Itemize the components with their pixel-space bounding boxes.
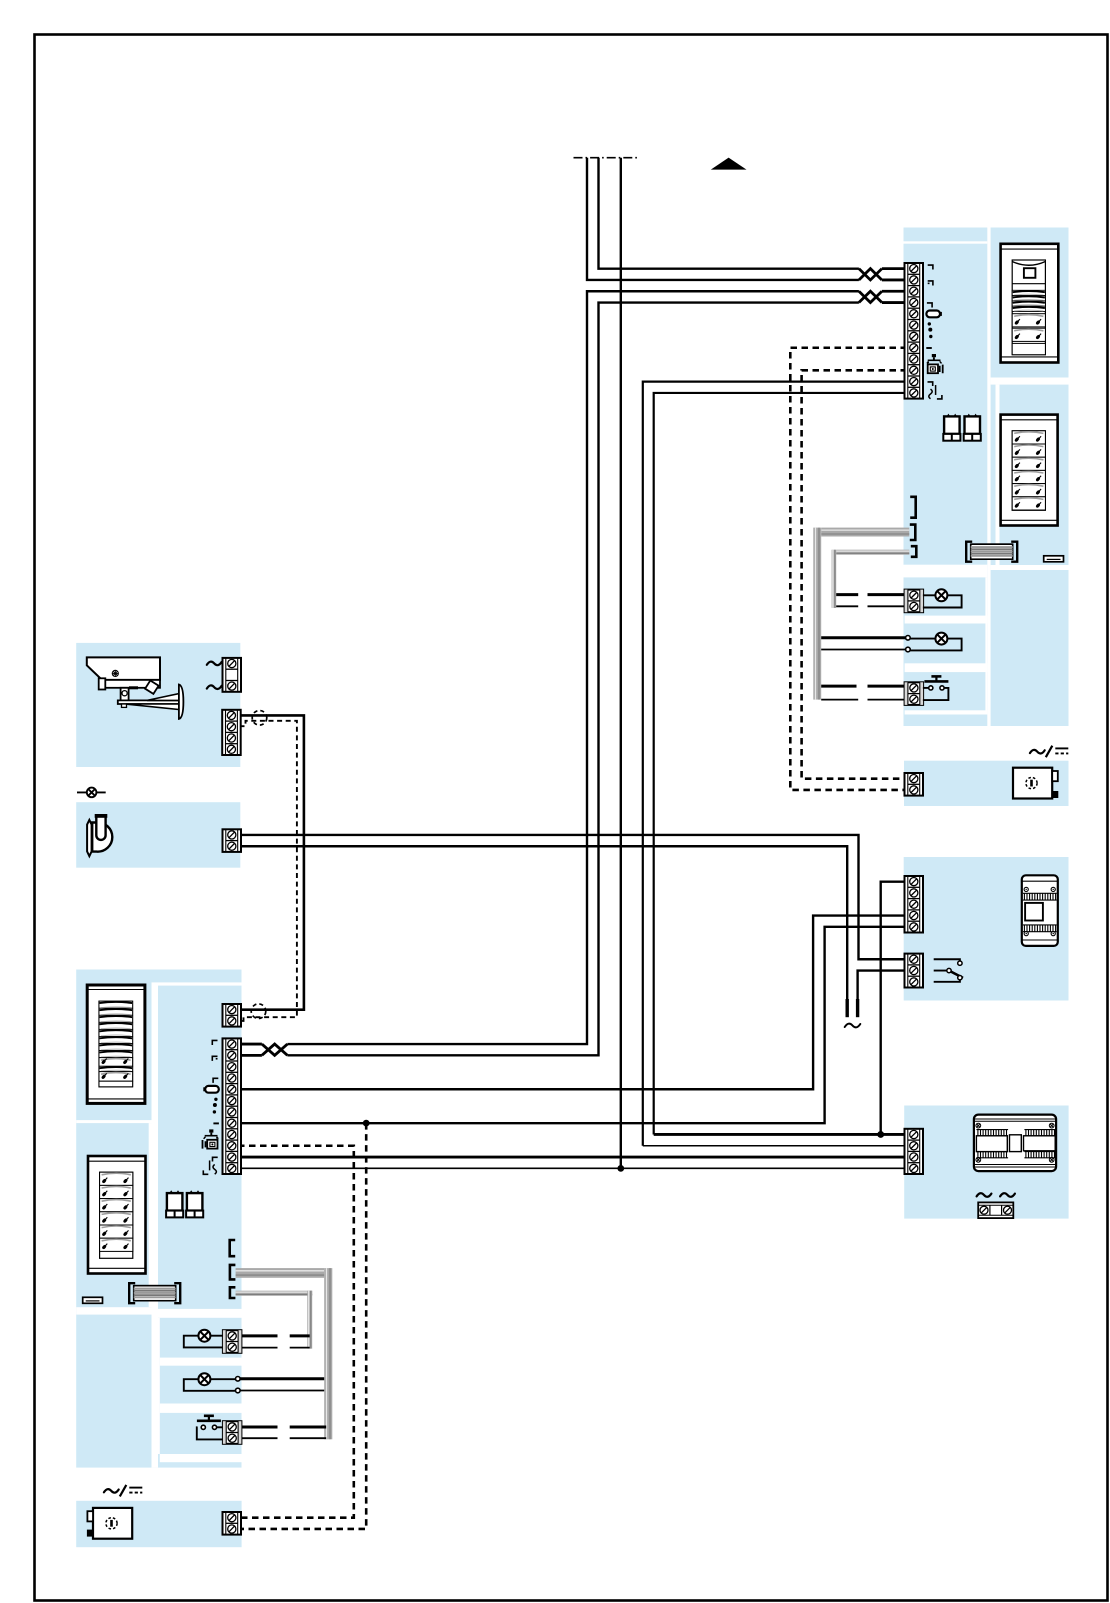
- wire unit2 lamp2 return: [240, 1390, 324, 1392]
- connector bracket unit1 thick ribbon: [910, 525, 916, 540]
- jumper links unit2: [166, 1190, 183, 1217]
- open circle unit2 lamp2 return: [236, 1388, 241, 1393]
- lamp L1 unit2: [198, 1330, 210, 1342]
- AC tilde transformer input 1: [977, 1193, 992, 1197]
- spare cover unit1: [1044, 556, 1064, 562]
- lamp L2 unit1: [935, 633, 947, 645]
- wire unit1 button feed (broken): [821, 685, 856, 688]
- dashed coil loop at unit2 aux wire: [251, 1004, 266, 1019]
- wire unit2 button feed (broken): [242, 1426, 278, 1429]
- AC/DC symbol PSU2: [104, 1485, 142, 1497]
- wire unit1 lamp2 feed: [821, 636, 906, 639]
- wire into unit1 terminal 3: [882, 290, 907, 293]
- relay DIN-rail device drawing: [1022, 875, 1058, 946]
- ribbon connector unit2: [129, 1283, 180, 1303]
- twisted pair mark unit1 terminals 1-2: [859, 269, 882, 280]
- spare cover unit2: [83, 1297, 103, 1303]
- dashed wire unit2 terminal 10 to PSU2 terminal 1: [238, 1146, 354, 1518]
- lamp L2 unit2: [198, 1373, 210, 1385]
- junction dot unit2 terminal 8 wire to PSU2: [363, 1120, 370, 1127]
- terminal block unit2 aux (2 way): [223, 1004, 242, 1027]
- AC/DC symbol PSU1: [1030, 746, 1068, 758]
- wire unit2 lamp1 loop: [211, 1335, 223, 1337]
- wire unit1 button return (broken): [821, 699, 858, 701]
- wire unit2 button loop: [215, 1426, 223, 1428]
- AC input terminal block (transformer): [978, 1202, 1013, 1218]
- wire unit1 terminal 11 to transformer terminal 2: [643, 382, 907, 1146]
- wire unit2 lamp1 terminal feed (broken): [242, 1334, 278, 1337]
- wire unit2 button return (broken): [242, 1437, 278, 1439]
- wire unit2 terminal 12 to transformer terminal 4: [238, 1167, 907, 1169]
- wire relay terminal R5 to unit2 terminal 8: [238, 927, 907, 1123]
- direction arrow (up): [711, 158, 747, 170]
- terminal block camera (2 way + spacer): [223, 658, 242, 692]
- blue block: relay unit (right): [904, 857, 1069, 1001]
- ribbon cable thin unit1 horizontal: [836, 550, 909, 555]
- terminal block unit2 button (2 way): [223, 1421, 242, 1444]
- wire unit2 lamp2 feed: [240, 1377, 324, 1380]
- open circle unit2 lamp2 feed: [236, 1377, 241, 1382]
- connector bracket unit2 (empty): [230, 1240, 236, 1256]
- wire camera terminal 1 down to unit2 aux terminal 1: [238, 715, 304, 1009]
- wire unit1 terminal 12 to transformer terminal 1: [654, 393, 907, 1134]
- twisted pair mark unit2 terminals 1-2: [262, 1044, 288, 1055]
- ribbon cable thick unit2 horizontal: [236, 1268, 325, 1278]
- AC stub thick end (right): [856, 999, 859, 1017]
- ribbon cable thin unit2 vertical: [307, 1291, 312, 1349]
- terminal block unit1 lamp1 (2 way): [905, 590, 924, 613]
- lamp symbol with leads (left): [77, 791, 106, 793]
- wire riser 1 to unit1 terminal 2: [587, 158, 859, 280]
- icon labels unit2 terminal functions: [202, 1040, 218, 1174]
- white dividers in unit 2 block: [76, 982, 241, 1467]
- wire relay contact terminal 2 down to AC supply stub: [858, 971, 907, 1017]
- wire unit1 lamp2 loop: [910, 638, 935, 640]
- wire unit2 lamp2 loop: [211, 1378, 236, 1380]
- dashed coil loop at camera wire: [252, 711, 267, 726]
- terminal block unit2 (12 way): [223, 1038, 242, 1174]
- blue block: transformer unit (bottom right): [904, 1106, 1068, 1219]
- entrance panel drawing unit2 (speaker panel): [87, 985, 145, 1103]
- blue block: power supply unit 1 (right): [904, 761, 1069, 806]
- ribbon cable thin unit2 horizontal: [236, 1291, 313, 1296]
- terminal block relay (5 way): [905, 876, 924, 933]
- button panel drawing unit1: [1001, 415, 1058, 526]
- wire unit2 terminal 2 run: [241, 1054, 262, 1057]
- junction dot riser 3 on transformer terminal 4 wire: [617, 1165, 624, 1172]
- terminal block transformer unit (4 way): [905, 1129, 924, 1174]
- AC tilde transformer input 2: [1000, 1193, 1015, 1197]
- white dividers in unit 1 block: [904, 228, 1069, 727]
- wire unit1 terminal 4 to riser 2 down to unit2 terminal 2: [287, 303, 859, 1056]
- wire unit1 lamp1 terminal feed (broken): [836, 593, 858, 596]
- wire into unit1 terminal 1: [882, 267, 907, 270]
- AC stub thick end (left): [846, 999, 849, 1017]
- terminal block unit1 button (2 way): [905, 682, 924, 705]
- CCTV camera drawing: [87, 657, 184, 719]
- power supply box PSU2: [87, 1508, 132, 1539]
- riser 3 bus wire down the page: [620, 158, 622, 1169]
- connector bracket unit2 thick ribbon: [230, 1265, 236, 1280]
- blue block: door lock unit (left): [76, 802, 240, 868]
- terminal block PSU1 (2 way): [905, 773, 924, 796]
- terminal block PSU2 (2 way): [223, 1512, 242, 1535]
- wire unit1 terminal 3 to riser 1 down to unit2 terminal 1: [287, 291, 859, 1044]
- dashed wire unit1 terminal 8 to PSU1 terminal 2: [790, 348, 907, 790]
- wire unit1 lamp1 return (broken): [836, 605, 858, 607]
- connector bracket unit1 (empty): [910, 497, 916, 518]
- transformer DIN-rail device drawing: [974, 1115, 1056, 1172]
- wire unit1 button loop: [923, 687, 929, 689]
- wire unit1 lamp2 return: [821, 649, 906, 651]
- wire relay terminal R4 to unit2 terminal 5: [238, 916, 907, 1090]
- open circle unit1 lamp2 feed: [906, 636, 911, 641]
- wire unit2 lamp1 return (broken): [242, 1347, 278, 1349]
- ribbon connector unit1: [966, 542, 1017, 562]
- dashed wire unit1 terminal 10 to PSU1 terminal 1: [802, 370, 907, 778]
- entrance panel drawing unit1 (speaker/camera panel): [1001, 244, 1059, 363]
- blue block: entry panel unit 1 (top right): [904, 228, 1069, 727]
- open circle unit1 lamp2 return: [906, 647, 911, 652]
- icon labels unit1 terminal functions: [926, 265, 942, 399]
- electric door lock drawing: [87, 814, 112, 856]
- button panel drawing unit2: [88, 1156, 146, 1274]
- wire relay terminal R1 down to transformer wire junction: [881, 882, 907, 1135]
- wire unit2 terminal 1 run: [241, 1043, 262, 1046]
- AC tilde symbol at supply stubs: [845, 1024, 861, 1028]
- blue block: power supply unit 2 (bottom left): [76, 1501, 241, 1547]
- lamp L1 unit1: [935, 589, 947, 601]
- wire door lock terminal 2 down to AC supply stub: [238, 846, 847, 1017]
- wire riser 2 to unit1 terminal 1: [599, 158, 859, 269]
- wire unit2 terminal 11 to transformer terminal 3: [238, 1156, 907, 1159]
- push button S1 unit2: [197, 1416, 221, 1430]
- jumper links unit1: [943, 414, 960, 441]
- terminal block unit1 (12 way): [905, 263, 924, 399]
- riser bus dash-dot line: [574, 157, 638, 159]
- power supply box PSU1: [1013, 768, 1058, 799]
- blue block: entry panel unit 2 (bottom left): [76, 970, 241, 1468]
- wire door lock terminal 1 to relay contact terminal 1: [238, 835, 907, 959]
- AC tilde at camera terminal 1: [207, 662, 222, 666]
- terminal block door lock (2 way): [223, 829, 242, 852]
- terminal block camera video (4 way): [222, 710, 241, 755]
- wire into unit1 terminal 4: [882, 301, 907, 304]
- ribbon cable thin unit1 vertical: [832, 550, 837, 608]
- terminal block unit2 lamp1 (2 way): [223, 1330, 242, 1353]
- blue block: camera unit (left): [76, 643, 240, 767]
- dashed wire junction to PSU2 terminal 2: [240, 1123, 367, 1529]
- ribbon cable thick unit2 vertical: [324, 1268, 332, 1439]
- ribbon cable thick unit1 vertical: [813, 528, 821, 700]
- twisted pair mark unit1 terminals 3-4: [859, 291, 882, 302]
- connector bracket unit2 thin ribbon: [230, 1287, 236, 1298]
- wire into unit1 terminal 2: [882, 279, 907, 282]
- connector bracket unit1 thin ribbon: [911, 546, 917, 557]
- ribbon cable thick unit1 horizontal: [821, 528, 909, 537]
- wire unit1 lamp1 loop: [923, 594, 936, 596]
- AC tilde at camera terminal 3: [207, 685, 222, 689]
- junction dot transformer terminal 1 wire: [877, 1131, 884, 1138]
- dashed wire camera terminal 2 down to unit2 aux terminal 2: [240, 721, 297, 1021]
- terminal block relay contact (3 way): [905, 954, 924, 988]
- push button S1 unit1: [924, 676, 948, 690]
- relay changeover contact symbol: [934, 959, 963, 982]
